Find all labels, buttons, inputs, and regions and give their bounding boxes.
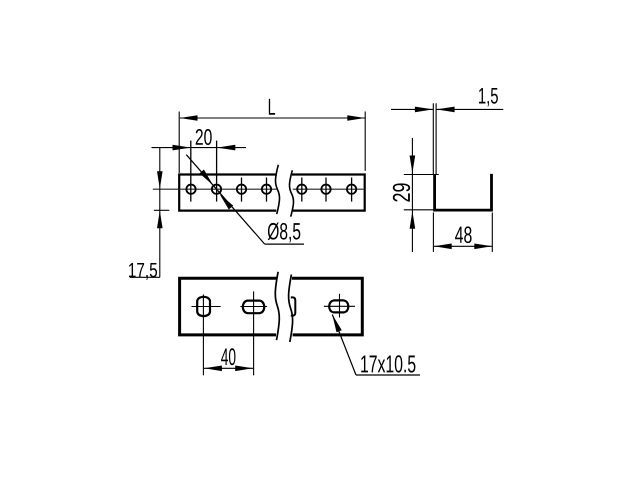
bottom view rail outline left segment: [180, 278, 277, 335]
wall thickness extension line outer: [432, 103, 434, 174]
dimension 29 label (rotated): [393, 183, 410, 201]
dimension 20 arrow left (pointing right): [173, 145, 191, 151]
dimension 48 arrow left: [434, 244, 452, 250]
dimension 48 arrow right: [474, 244, 492, 250]
top view break line S2: [289, 170, 293, 216]
hole 7: [347, 185, 356, 194]
hole 4 vertical centerline: [266, 178, 268, 202]
hole 2 vertical centerline / extension: [216, 141, 218, 202]
dimension 40 arrow right: [235, 366, 253, 372]
partial slot at break: [291, 297, 296, 315]
hole 5 vertical centerline: [301, 178, 303, 202]
hole 2: [212, 185, 221, 194]
slot size label: [361, 355, 415, 372]
dimension 48 label: [455, 226, 472, 243]
hole 6: [321, 185, 330, 194]
top view break line S1: [275, 165, 279, 214]
dimension 17,5 line vertical: [159, 148, 161, 278]
slot size leader underline: [356, 374, 420, 376]
bottom view break line S1: [275, 272, 279, 340]
hole 7 vertical centerline: [351, 178, 353, 202]
hole 5: [297, 185, 306, 194]
dimension 1,5 label: [479, 88, 498, 106]
top view centerline left: [153, 188, 277, 190]
hole 3: [237, 185, 246, 194]
hole 4: [262, 185, 271, 194]
dimension 17,5 tick bottom edge extension: [154, 209, 169, 211]
wall thickness extension line inner: [435, 103, 437, 174]
dimension L extension line right: [364, 112, 366, 171]
dimension 29 arrow up: [410, 211, 416, 229]
hole 3 vertical centerline: [241, 178, 243, 202]
slot 3 horizontal centerline: [324, 305, 355, 307]
dimension L arrow left: [180, 115, 198, 121]
slot size leader line: [332, 315, 356, 376]
dimension 17,5 arrow up: [157, 211, 163, 229]
dimension 1,5 arrow right (pointing left): [436, 107, 454, 113]
dimension 40 arrow left: [204, 366, 222, 372]
dimension 48 extension line right: [491, 213, 493, 252]
slot 2 (horizontal oblong): [243, 301, 264, 314]
slot size leader arrow: [332, 315, 342, 333]
dimension 40 line: [204, 367, 253, 369]
dimension 17,5 arrow down: [157, 171, 163, 189]
diameter leader arrow lower (pointing up-left): [220, 194, 234, 209]
U profile: [435, 174, 492, 210]
dimension 29 line vertical: [411, 138, 413, 252]
bottom view rail outline right segment: [292, 278, 362, 335]
dimension 29 tick top: [404, 174, 439, 176]
slot 3 (horizontal oblong): [329, 300, 348, 312]
dimension 1,5 line left tail: [391, 108, 433, 110]
diameter leader arrow upper (pointing down-right): [200, 170, 214, 186]
dimension 1,5 arrow left (pointing right): [415, 107, 433, 113]
top view centerline right: [293, 188, 364, 190]
dimension L extension line left: [178, 112, 180, 174]
hole 1: [186, 185, 195, 194]
slot 2 horizontal centerline: [240, 306, 267, 308]
dimension 20 label: [196, 129, 212, 145]
diameter leader line: [186, 155, 264, 244]
dimension 1,5 line right tail: [436, 108, 503, 110]
top view rail outline left segment: [179, 175, 277, 211]
dimension 48 line: [434, 245, 492, 247]
dimension L label: [269, 99, 275, 115]
slot 1 vertical centerline / extension: [202, 295, 204, 376]
dimension L arrow right: [347, 115, 365, 121]
diameter leader underline: [265, 243, 304, 245]
bottom view break line S2: [289, 275, 293, 343]
hole 1 vertical centerline / extension: [190, 141, 192, 202]
slot 2 vertical centerline / extension: [253, 291, 255, 375]
diameter label: [268, 223, 301, 243]
top view rail outline right segment: [292, 175, 365, 211]
slot 1 horizontal centerline: [192, 306, 221, 308]
slot 1 (vertical oblong): [197, 297, 210, 316]
dimension 20 arrow right (pointing left): [217, 145, 235, 151]
slot 3 vertical centerline: [339, 294, 341, 318]
dimension 17,5 leader horizontal: [130, 276, 160, 278]
dimension 29 arrow down: [410, 156, 416, 174]
hole 6 vertical centerline: [325, 178, 327, 202]
dimension L line: [180, 117, 365, 119]
dimension 20 line: [152, 147, 247, 149]
dimension 29 tick bottom: [404, 209, 439, 211]
dimension 48 extension line left: [432, 213, 434, 252]
dimension 17,5 label: [129, 263, 157, 280]
dimension 40 label: [221, 348, 235, 365]
